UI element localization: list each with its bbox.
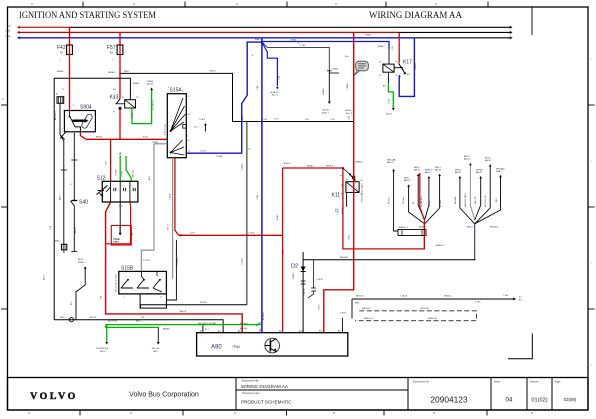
svg-text:B17: B17 xyxy=(71,301,73,305)
svg-text:1,0 BL: 1,0 BL xyxy=(200,151,207,153)
svg-text:1: 1 xyxy=(105,186,106,188)
svg-text:AA-42: AA-42 xyxy=(476,171,483,174)
svg-text:FF: FF xyxy=(413,201,415,204)
svg-text:4A7-P: 4A7-P xyxy=(100,350,106,353)
svg-text:BB-7: BB-7 xyxy=(496,197,498,202)
wire red S15A start output xyxy=(170,158,179,236)
wire with up arrow to connector xyxy=(71,258,87,320)
svg-text:87: 87 xyxy=(379,75,381,77)
fuse F57 xyxy=(107,45,123,55)
svg-text:AA-10: AA-10 xyxy=(464,158,471,161)
svg-text:FF. Bxx: FF. Bxx xyxy=(403,196,405,204)
svg-text:Parked heat engine: Parked heat engine xyxy=(361,182,364,202)
svg-text:PROFIBUS-B: PROFIBUS-B xyxy=(96,348,109,350)
svg-text:02(59): 02(59) xyxy=(564,397,577,402)
wire red F57 to relay K13 xyxy=(108,55,120,99)
svg-text:B86A-2: B86A-2 xyxy=(108,71,116,74)
svg-text:B88A: B88A xyxy=(115,238,120,241)
wire red splice SP1 branch xyxy=(419,172,425,249)
wire green K13 to connector arrow xyxy=(132,80,155,124)
svg-text:17-A-L: 17-A-L xyxy=(199,118,206,121)
svg-text:K17: K17 xyxy=(403,60,412,66)
svg-text:AA-42: AA-42 xyxy=(425,171,432,174)
wire blue S15A to rail 50 xyxy=(186,42,262,158)
connector X1 (small box with hatch) xyxy=(56,93,64,104)
svg-text:Document type: Document type xyxy=(242,391,260,395)
svg-text:17R-L: 17R-L xyxy=(349,234,351,240)
svg-text:WIRING DIAGRAM AA: WIRING DIAGRAM AA xyxy=(369,10,462,21)
wire red K11 to splice SP1 xyxy=(338,168,425,249)
svg-text:B7L: B7L xyxy=(383,86,386,88)
svg-text:1,7B: 1,7B xyxy=(50,225,52,230)
svg-text:AB-B8W: AB-B8W xyxy=(340,256,348,259)
svg-text:Page: Page xyxy=(555,379,562,383)
wire blue rail50 to K17 contact xyxy=(398,38,417,97)
svg-text:r: r xyxy=(591,363,592,367)
svg-text:VOLVO: VOLVO xyxy=(30,391,78,402)
svg-text:1,7W: 1,7W xyxy=(330,119,335,121)
svg-text:1: 1 xyxy=(67,130,68,132)
svg-text:r: r xyxy=(591,261,592,265)
splice SP1 connector (dashed) xyxy=(398,226,426,236)
wire red S12 second pole join xyxy=(106,202,131,244)
wire battery output B+ xyxy=(352,295,523,319)
svg-text:A7-B8x: A7-B8x xyxy=(439,199,442,207)
wire K13 coil ground route xyxy=(50,78,141,320)
svg-text:xB5-A-L: xB5-A-L xyxy=(322,109,330,112)
svg-text:17B: 17B xyxy=(305,119,309,121)
wire K11 down stub xyxy=(336,192,347,214)
svg-text:Issue: Issue xyxy=(494,379,501,383)
connector arrow near S15A xyxy=(194,118,207,132)
wire connector X1 drop xyxy=(43,135,67,280)
wire red start signal to A90 xyxy=(179,233,283,237)
svg-text:Volume: Volume xyxy=(530,379,539,383)
svg-text:85: 85 xyxy=(341,194,343,196)
svg-text:A: A xyxy=(56,93,58,96)
svg-text:17BL-B: 17BL-B xyxy=(415,63,417,70)
svg-text:B88-1: B88-1 xyxy=(414,167,421,169)
switch S904 xyxy=(64,105,95,132)
svg-text:17GN-L: 17GN-L xyxy=(122,170,124,177)
svg-text:7F84: 7F84 xyxy=(232,345,240,349)
svg-text:17R-5: 17R-5 xyxy=(319,304,321,310)
svg-text:B6B5-x4-7: B6B5-x4-7 xyxy=(364,318,374,320)
svg-text:A8: A8 xyxy=(338,330,340,333)
relay K17 contact arm xyxy=(394,63,410,76)
svg-text:1,7B-06: 1,7B-06 xyxy=(400,296,408,298)
svg-text:85: 85 xyxy=(396,62,398,64)
svg-text:x869: x869 xyxy=(153,351,158,353)
svg-text:ABC-B5: ABC-B5 xyxy=(132,170,135,177)
svg-text:x: x xyxy=(413,35,414,37)
svg-text:B6B6 xB5: B6B6 xB5 xyxy=(428,318,438,320)
svg-text:S904: S904 xyxy=(80,105,92,111)
svg-text:1,7R: 1,7R xyxy=(101,295,103,300)
wire A90 right pin stub xyxy=(341,318,343,333)
svg-text:ABC-M7: ABC-M7 xyxy=(474,195,477,204)
svg-text:1-7B6M: 1-7B6M xyxy=(347,83,349,90)
svg-text:1,0: 1,0 xyxy=(248,149,251,151)
switch S40 xyxy=(71,199,89,206)
svg-text:30: 30 xyxy=(113,97,115,99)
svg-text:17BL: 17BL xyxy=(257,84,259,90)
svg-text:1: 1 xyxy=(201,336,202,338)
svg-text:B98-3: B98-3 xyxy=(464,156,471,158)
svg-text:86: 86 xyxy=(379,62,381,64)
net 15 supply rail xyxy=(5,30,513,34)
svg-text:AB-AB6: AB-AB6 xyxy=(454,196,457,204)
svg-text:B17 B-B-x B: B17 B-B-x B xyxy=(485,195,487,207)
svg-text:Bx-7.5: Bx-7.5 xyxy=(272,95,279,97)
wire gray S15A to S15B xyxy=(141,144,154,272)
svg-text:B97-0: B97-0 xyxy=(485,157,492,159)
svg-text:B7-L: B7-L xyxy=(194,127,199,129)
svg-text:B88-AA0: B88-AA0 xyxy=(496,167,505,170)
splice SP1 fan xyxy=(403,167,442,229)
wire red F42 to S904 xyxy=(57,55,70,111)
svg-text:r: r xyxy=(591,159,592,163)
svg-text:GR-17: GR-17 xyxy=(168,223,170,230)
note balloon on starter feed xyxy=(354,61,368,75)
wire red from rail 30 to fuse F42 xyxy=(69,27,71,45)
svg-text:+30: +30 xyxy=(7,25,11,27)
wire battery sense loop (dashed) xyxy=(340,307,477,321)
svg-text:5: 5 xyxy=(132,186,133,188)
svg-text:AB-C8: AB-C8 xyxy=(74,226,77,233)
wire red rail15 drop through K11 to A90 xyxy=(319,32,364,332)
svg-text:B86A-7: B86A-7 xyxy=(57,70,65,73)
svg-text:AB-CB-L7: AB-CB-L7 xyxy=(54,110,57,120)
svg-text:AA-CF: AA-CF xyxy=(387,161,394,164)
wire green speed signal xyxy=(106,320,261,331)
svg-text:A5-L-P: A5-L-P xyxy=(346,112,353,115)
svg-text:Not blk.Star for Fwd: Not blk.Star for Fwd xyxy=(115,274,118,292)
svg-text:A1: A1 xyxy=(260,328,262,331)
svg-text:B86A-3: B86A-3 xyxy=(326,164,334,167)
svg-text:B88B-2: B88B-2 xyxy=(425,169,433,171)
svg-text:1,7B-W: 1,7B-W xyxy=(316,279,323,281)
svg-text:1-7B6: 1-7B6 xyxy=(503,295,508,297)
svg-text:B98-B: B98-B xyxy=(455,169,462,171)
wire red S12 to ground rail xyxy=(101,202,243,333)
svg-text:17B-B5: 17B-B5 xyxy=(177,257,179,265)
svg-text:B88-L: B88-L xyxy=(404,177,411,179)
svg-text:WIRING DIAGRAM AA: WIRING DIAGRAM AA xyxy=(241,384,289,389)
svg-text:B: B xyxy=(252,55,254,57)
svg-text:EFL-GE: EFL-GE xyxy=(152,348,160,350)
wire vertical left mid xyxy=(70,133,78,252)
svg-text:B8A-x: B8A-x xyxy=(255,38,260,41)
svg-text:AA-10: AA-10 xyxy=(435,168,442,171)
svg-text:86: 86 xyxy=(122,97,124,99)
svg-text:5A: 5A xyxy=(60,52,63,55)
svg-text:1,7R-B: 1,7R-B xyxy=(170,193,172,200)
svg-text:85: 85 xyxy=(137,97,139,99)
svg-text:FF. Bxx: FF. Bxx xyxy=(389,196,391,204)
svg-text:3,5R: 3,5R xyxy=(119,206,124,208)
relay K13 coil xyxy=(110,95,139,109)
ignition switch S15A xyxy=(163,88,189,158)
svg-text:AB5B5x: AB5B5x xyxy=(163,328,170,331)
fold mark xyxy=(508,334,532,359)
svg-text:B7A-5x: B7A-5x xyxy=(284,162,290,165)
svg-text:ABC-1: ABC-1 xyxy=(136,320,143,323)
svg-text:1,7B-50: 1,7B-50 xyxy=(304,288,306,296)
switch S12 xyxy=(97,176,138,203)
svg-text:A4: A4 xyxy=(218,330,220,333)
svg-text:14: 14 xyxy=(160,297,162,299)
svg-text:B88-xAA: B88-xAA xyxy=(387,158,396,161)
svg-text:B86-A: B86-A xyxy=(96,136,102,139)
svg-text:B88-7L: B88-7L xyxy=(210,71,216,73)
svg-text:1-7B6: 1-7B6 xyxy=(300,45,306,47)
svg-text:3: 3 xyxy=(122,186,123,188)
wire red rail15 to K17 xyxy=(392,32,399,62)
svg-text:B: B xyxy=(346,179,348,181)
svg-text:17BL: 17BL xyxy=(279,74,281,80)
svg-text:ACC: ACC xyxy=(148,175,151,180)
svg-text:P88A-2: P88A-2 xyxy=(292,271,295,279)
svg-text:BL-17: BL-17 xyxy=(242,114,244,120)
wire red S904 to ignition feed node xyxy=(60,132,86,140)
svg-text:B8B-B-L: B8B-B-L xyxy=(444,296,452,298)
svg-text:+15E: +15E xyxy=(5,30,11,32)
svg-text:B88-1: B88-1 xyxy=(435,167,442,169)
svg-text:S15A: S15A xyxy=(170,88,183,94)
svg-text:AA-10: AA-10 xyxy=(485,159,492,162)
svg-text:B88A-7: B88A-7 xyxy=(378,45,386,48)
svg-text:B8B-x: B8B-x xyxy=(55,241,60,243)
wire red ignition feed to S15A xyxy=(86,136,167,144)
svg-text:B88-7: B88-7 xyxy=(124,71,130,73)
svg-text:D8x: D8x xyxy=(336,208,338,212)
svg-text:PRODUCT SCHEMATIC: PRODUCT SCHEMATIC xyxy=(241,400,292,405)
svg-text:a: a xyxy=(60,59,61,61)
svg-text:A91-7: A91-7 xyxy=(43,274,46,280)
svg-text:777L: 777L xyxy=(274,119,280,121)
net 30 supply rail xyxy=(7,25,513,29)
svg-text:B88L: B88L xyxy=(355,303,359,305)
sub box below S15B xyxy=(140,294,166,308)
svg-text:17: 17 xyxy=(62,89,65,91)
svg-text:AB-L7: AB-L7 xyxy=(59,194,62,200)
svg-text:B6x5: B6x5 xyxy=(60,317,65,319)
svg-text:Cx-.B17: Cx-.B17 xyxy=(429,199,431,207)
wire blue rail50 main drop to A90 xyxy=(257,38,265,333)
svg-text:17B: 17B xyxy=(132,232,134,236)
svg-text:BAT 64T: BAT 64T xyxy=(356,295,364,298)
ground rail bottom xyxy=(54,316,223,333)
svg-text:0,5 mto 5-p: 0,5 mto 5-p xyxy=(152,99,155,110)
wire blue K17 coil feed xyxy=(262,42,389,65)
svg-text:BAT 64-2: BAT 64-2 xyxy=(362,307,371,310)
svg-text:a: a xyxy=(112,59,113,61)
svg-text:A-7: A-7 xyxy=(519,299,523,302)
svg-text:BL-B5x4: BL-B5x4 xyxy=(263,311,265,320)
svg-text:AB-C8: AB-C8 xyxy=(180,310,187,313)
svg-text:xB8-A-L: xB8-A-L xyxy=(345,109,353,112)
svg-text:87: 87 xyxy=(361,194,363,196)
fuse F42 xyxy=(57,45,72,55)
svg-text:0,8 mto 5-p: 0,8 mto 5-p xyxy=(163,123,166,135)
svg-text:B88-A11: B88-A11 xyxy=(490,226,499,229)
svg-text:B98B-4: B98B-4 xyxy=(476,169,484,171)
svg-text:AB-GN5A: AB-GN5A xyxy=(108,320,117,323)
svg-text:17GN-B: 17GN-B xyxy=(116,168,118,176)
svg-text:S15B: S15B xyxy=(121,266,134,272)
wire green K17 to arrow xyxy=(383,72,395,115)
svg-text:A91-A: A91-A xyxy=(147,83,153,86)
svg-text:AB5-B5L: AB5-B5L xyxy=(240,322,249,325)
wire A90 pin 1 stub xyxy=(202,324,204,333)
svg-text:B8-x: B8-x xyxy=(345,56,349,58)
svg-text:17GN: 17GN xyxy=(389,98,391,104)
svg-text:5A: 5A xyxy=(110,52,113,55)
svg-text:S40: S40 xyxy=(79,200,88,206)
svg-text:B71: B71 xyxy=(200,331,203,333)
svg-text:Document title: Document title xyxy=(242,379,259,383)
svg-text:B7-1: B7-1 xyxy=(205,329,209,331)
wire blue accessory drop with arrow xyxy=(252,42,281,97)
svg-text:B88-4: B88-4 xyxy=(467,227,474,229)
svg-text:1,5-B50: 1,5-B50 xyxy=(242,257,244,265)
wire red from rail 15 to fuse F57 xyxy=(119,32,121,45)
svg-text:A28: A28 xyxy=(299,330,302,333)
svg-text:AB5-B5L: AB5-B5L xyxy=(240,327,248,330)
wire S12 down arrow xyxy=(113,202,122,243)
svg-text:24B 2-26T: 24B 2-26T xyxy=(420,308,430,310)
switch S15B xyxy=(115,266,167,299)
svg-text:A-9A-42: A-9A-42 xyxy=(271,91,279,94)
svg-text:K11: K11 xyxy=(332,193,341,199)
svg-text:1,7B: 1,7B xyxy=(140,317,145,319)
svg-text:04: 04 xyxy=(506,397,513,404)
svg-text:B86A-5: B86A-5 xyxy=(307,164,315,167)
svg-text:A15: A15 xyxy=(279,330,282,333)
wire red ignition feed tap to S12 xyxy=(106,139,111,181)
svg-text:30: 30 xyxy=(341,185,343,187)
wire gray to S15A pin xyxy=(154,143,167,145)
wire ground stub with connector xyxy=(308,260,323,298)
svg-text:17R: 17R xyxy=(106,161,108,165)
svg-text:+50E: +50E xyxy=(5,36,11,38)
diode D2 xyxy=(291,252,306,333)
svg-text:0,5B5x: 0,5B5x xyxy=(242,164,244,170)
svg-text:50: 50 xyxy=(188,151,190,153)
svg-text:3: 3 xyxy=(2,97,4,101)
svg-text:1,7R-B: 1,7R-B xyxy=(248,233,255,235)
svg-text:S7-A: S7-A xyxy=(143,136,148,139)
wire splice to arrow down xyxy=(322,68,353,116)
svg-text:1-7B6: 1-7B6 xyxy=(475,302,481,304)
splice SP1 isolated branch xyxy=(387,158,398,231)
svg-text:B88A-L1-1: B88A-L1-1 xyxy=(399,226,408,229)
svg-text:A4: A4 xyxy=(113,88,116,91)
svg-text:xAA-7: xAA-7 xyxy=(496,170,503,173)
svg-text:50: 50 xyxy=(188,140,190,142)
svg-text:17GN: 17GN xyxy=(132,112,134,118)
svg-text:17R: 17R xyxy=(349,116,351,120)
relay K11 coil xyxy=(332,182,364,202)
svg-text:1: 1 xyxy=(124,297,125,299)
svg-text:B8E-M-3: B8E-M-3 xyxy=(342,205,344,214)
svg-text:B+: B+ xyxy=(519,297,522,299)
svg-text:AA-CF: AA-CF xyxy=(404,179,411,182)
svg-text:A91-2: A91-2 xyxy=(78,258,84,261)
wire gray S15A lower to S15B right xyxy=(168,158,173,279)
svg-text:Volvo Bus Corporation: Volvo Bus Corporation xyxy=(129,392,199,399)
svg-text:B88A-L1-1: B88A-L1-1 xyxy=(436,244,445,247)
svg-text:17B6B: 17B6B xyxy=(365,35,371,37)
svg-text:1,0BL: 1,0BL xyxy=(257,194,259,200)
wire green S12 branch 1 xyxy=(116,152,122,181)
svg-text:A7B-L7: A7B-L7 xyxy=(322,112,330,115)
wire navy SP2 to ground bus xyxy=(474,224,476,260)
svg-text:01(02): 01(02) xyxy=(531,398,547,404)
svg-text:54: 54 xyxy=(188,114,190,116)
svg-text:B88A-7: B88A-7 xyxy=(133,82,141,85)
svg-text:17R-5: 17R-5 xyxy=(283,249,285,255)
svg-text:PRA1-9: PRA1-9 xyxy=(78,261,86,264)
svg-text:B8B5-1: B8B5-1 xyxy=(419,227,427,229)
svg-text:17B6B: 17B6B xyxy=(290,40,297,42)
svg-text:IGNITION AND STARTING SYSTEM: IGNITION AND STARTING SYSTEM xyxy=(19,10,156,21)
svg-text:Document No: Document No xyxy=(413,379,429,383)
svg-text:B86A-5: B86A-5 xyxy=(356,161,364,164)
component outline (red) with connector arrow xyxy=(111,226,134,246)
svg-text:C-7B: C-7B xyxy=(262,119,268,121)
svg-text:AA-70: AA-70 xyxy=(455,171,462,174)
wire green drop arrow xyxy=(96,325,109,353)
svg-text:17B6B: 17B6B xyxy=(216,156,223,158)
svg-text:20904123: 20904123 xyxy=(430,394,468,404)
ground bus horizontal xyxy=(303,256,476,260)
net 50 supply rail (blue) xyxy=(5,36,513,40)
wire S15B to splice xyxy=(140,240,247,308)
splice SP2 fan xyxy=(454,156,505,229)
wire green S12 branch 2 xyxy=(122,156,135,182)
svg-text:AA-10: AA-10 xyxy=(414,168,421,171)
svg-text:F57: F57 xyxy=(107,45,116,51)
svg-text:PTA-B: PTA-B xyxy=(147,80,154,83)
svg-text:87: 87 xyxy=(113,112,115,114)
svg-text:r: r xyxy=(591,57,592,61)
svg-text:F42: F42 xyxy=(57,45,66,51)
connector block X2 xyxy=(55,241,67,254)
svg-text:A9 RD B8.1: A9 RD B8.1 xyxy=(420,195,423,207)
svg-text:4: 4 xyxy=(168,87,169,89)
svg-text:1,7R-B: 1,7R-B xyxy=(338,208,340,215)
svg-text:AB7-M: AB7-M xyxy=(90,316,96,319)
wire red K11 feed xyxy=(276,164,344,332)
svg-text:S7-B: S7-B xyxy=(190,233,195,235)
svg-text:15: 15 xyxy=(186,136,188,138)
svg-text:PTA63: PTA63 xyxy=(332,68,339,71)
svg-text:86: 86 xyxy=(361,180,363,182)
svg-text:B-ABB-x: B-ABB-x xyxy=(322,88,325,95)
svg-text:1,7: 1,7 xyxy=(70,184,73,186)
svg-text:ABCD6L TBF-L: ABCD6L TBF-L xyxy=(464,192,467,207)
wire label smudges xyxy=(60,35,508,332)
svg-text:2: 2 xyxy=(90,127,91,129)
svg-text:S12: S12 xyxy=(97,176,106,182)
wire K13 switched feed from K17 xyxy=(119,71,354,122)
wire black center drop xyxy=(242,122,247,305)
svg-text:17B-B: 17B-B xyxy=(340,313,346,315)
control unit A90 xyxy=(197,330,348,357)
svg-text:4: 4 xyxy=(73,105,74,107)
